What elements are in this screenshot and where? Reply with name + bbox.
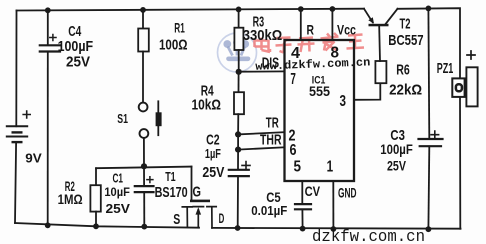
label R3 (243, 14, 283, 45)
svg-text:1: 1 (327, 158, 334, 175)
battery B1 9V (7, 111, 30, 143)
label C1 (104, 171, 130, 217)
node pin8 rail (330, 6, 336, 12)
node pin4 rail (298, 6, 304, 12)
svg-text:Vcc: Vcc (337, 21, 356, 37)
transistor T2 BC557 (364, 9, 398, 27)
resistor R6 (375, 26, 386, 83)
node bottom GND (331, 226, 337, 232)
svg-text:GND: GND (338, 184, 357, 200)
label T1 (155, 170, 188, 201)
node bottom C1 (141, 224, 147, 230)
svg-text:9V: 9V (25, 151, 42, 165)
node bottom R2 (93, 223, 99, 229)
svg-text:7: 7 (290, 71, 296, 88)
svg-text:C1: C1 (113, 171, 124, 186)
node DIS junction (236, 69, 242, 75)
wire pin4 R (300, 9, 302, 40)
watermark chinese text (approximated strokes) (255, 33, 365, 53)
node top C3 (426, 5, 432, 11)
svg-text:R1: R1 (174, 20, 185, 36)
resistor R4 (234, 72, 244, 135)
node top R3 (236, 6, 242, 12)
node bottom C4 (45, 222, 51, 228)
svg-text:BC557: BC557 (388, 32, 423, 49)
svg-text:T1: T1 (165, 170, 176, 184)
svg-text:3: 3 (340, 93, 347, 110)
svg-text:TR: TR (266, 116, 279, 132)
svg-text:25V: 25V (202, 165, 224, 181)
label IC1 555 (309, 74, 330, 99)
svg-text:THR: THR (260, 132, 282, 148)
svg-text:dzkfw.com.cn: dzkfw.com.cn (312, 228, 425, 244)
svg-text:CV: CV (305, 184, 321, 199)
node bottom C5 (300, 226, 306, 232)
svg-text:DIS: DIS (262, 54, 280, 71)
wire TR-THR (237, 134, 239, 149)
wire pin7 DIS (239, 70, 285, 72)
label C5 (251, 190, 287, 218)
wire bottom rail right (ground) (212, 227, 461, 230)
resistor R3 (234, 9, 243, 71)
wire pin8 Vcc (331, 9, 333, 40)
svg-text:PZ1: PZ1 (437, 60, 454, 77)
wire left border (battery branch) (15, 11, 17, 224)
label T2 (388, 16, 423, 49)
svg-text:5: 5 (294, 158, 302, 175)
node top C4 (45, 7, 51, 13)
svg-text:0.01µF: 0.01µF (251, 203, 287, 218)
svg-text:10µF: 10µF (104, 185, 129, 199)
svg-text:S: S (173, 212, 180, 228)
switch S1 (139, 101, 162, 166)
wire pin6 THR (238, 147, 284, 149)
svg-text:4: 4 (291, 45, 300, 62)
label C2 (202, 131, 224, 180)
transistor T1 BS170 (182, 167, 216, 228)
wire horizontal R2/C1/gate net (96, 167, 192, 169)
capacitor C5 (295, 181, 311, 229)
svg-text:100µF: 100µF (380, 142, 413, 157)
svg-text:D: D (219, 211, 225, 226)
svg-text:BS170: BS170 (155, 185, 188, 201)
label R6 (389, 61, 422, 98)
op-amp U1 555 box (285, 40, 355, 181)
capacitor C1 (135, 166, 154, 226)
label R4 (192, 83, 222, 114)
svg-text:G: G (193, 184, 202, 201)
wire pin2 TR (238, 132, 284, 134)
svg-text:25V: 25V (66, 54, 90, 71)
label R2 (58, 178, 83, 207)
node top R1 (140, 7, 146, 13)
svg-text:T2: T2 (400, 16, 411, 33)
watermark logo circle (218, 33, 257, 72)
node bottom C3 (426, 226, 432, 232)
svg-text:1MΩ: 1MΩ (58, 191, 83, 207)
svg-text:S1: S1 (117, 112, 128, 126)
svg-text:100µF: 100µF (58, 38, 94, 55)
node THR junction (235, 147, 241, 153)
svg-text:8: 8 (331, 45, 340, 62)
svg-text:330kΩ: 330kΩ (243, 28, 283, 44)
svg-text:1µF: 1µF (205, 146, 221, 161)
svg-text:25V: 25V (387, 157, 406, 173)
resistor R1 (138, 10, 149, 102)
wire top rail (Vcc) (17, 9, 365, 11)
capacitor C3 (419, 8, 443, 229)
svg-text:22kΩ: 22kΩ (389, 82, 422, 99)
piezo PZ1 (452, 51, 477, 106)
svg-text:R: R (307, 21, 315, 37)
svg-text:555: 555 (309, 83, 330, 99)
resistor R2 (90, 168, 100, 226)
wire right side (collector rail to PZ1) (398, 8, 461, 229)
label R1 (159, 20, 188, 54)
node S1/C1 junction (141, 163, 147, 169)
svg-text:R6: R6 (396, 61, 410, 78)
node bottom C2 (235, 225, 241, 231)
label C3 (380, 127, 413, 173)
capacitor C2 (229, 150, 250, 228)
svg-text:25V: 25V (106, 202, 131, 216)
wire bottom rail left (ground) (15, 223, 199, 228)
wire pin1 GND (332, 181, 334, 229)
node TR junction (235, 131, 241, 137)
svg-text:6: 6 (290, 142, 297, 159)
svg-text:10kΩ: 10kΩ (192, 97, 222, 114)
capacitor C4 (40, 10, 60, 225)
svg-text:100Ω: 100Ω (159, 38, 188, 54)
wire pin3 output (354, 83, 380, 100)
label C4 (58, 24, 94, 71)
WATERMARKS (218, 33, 371, 74)
